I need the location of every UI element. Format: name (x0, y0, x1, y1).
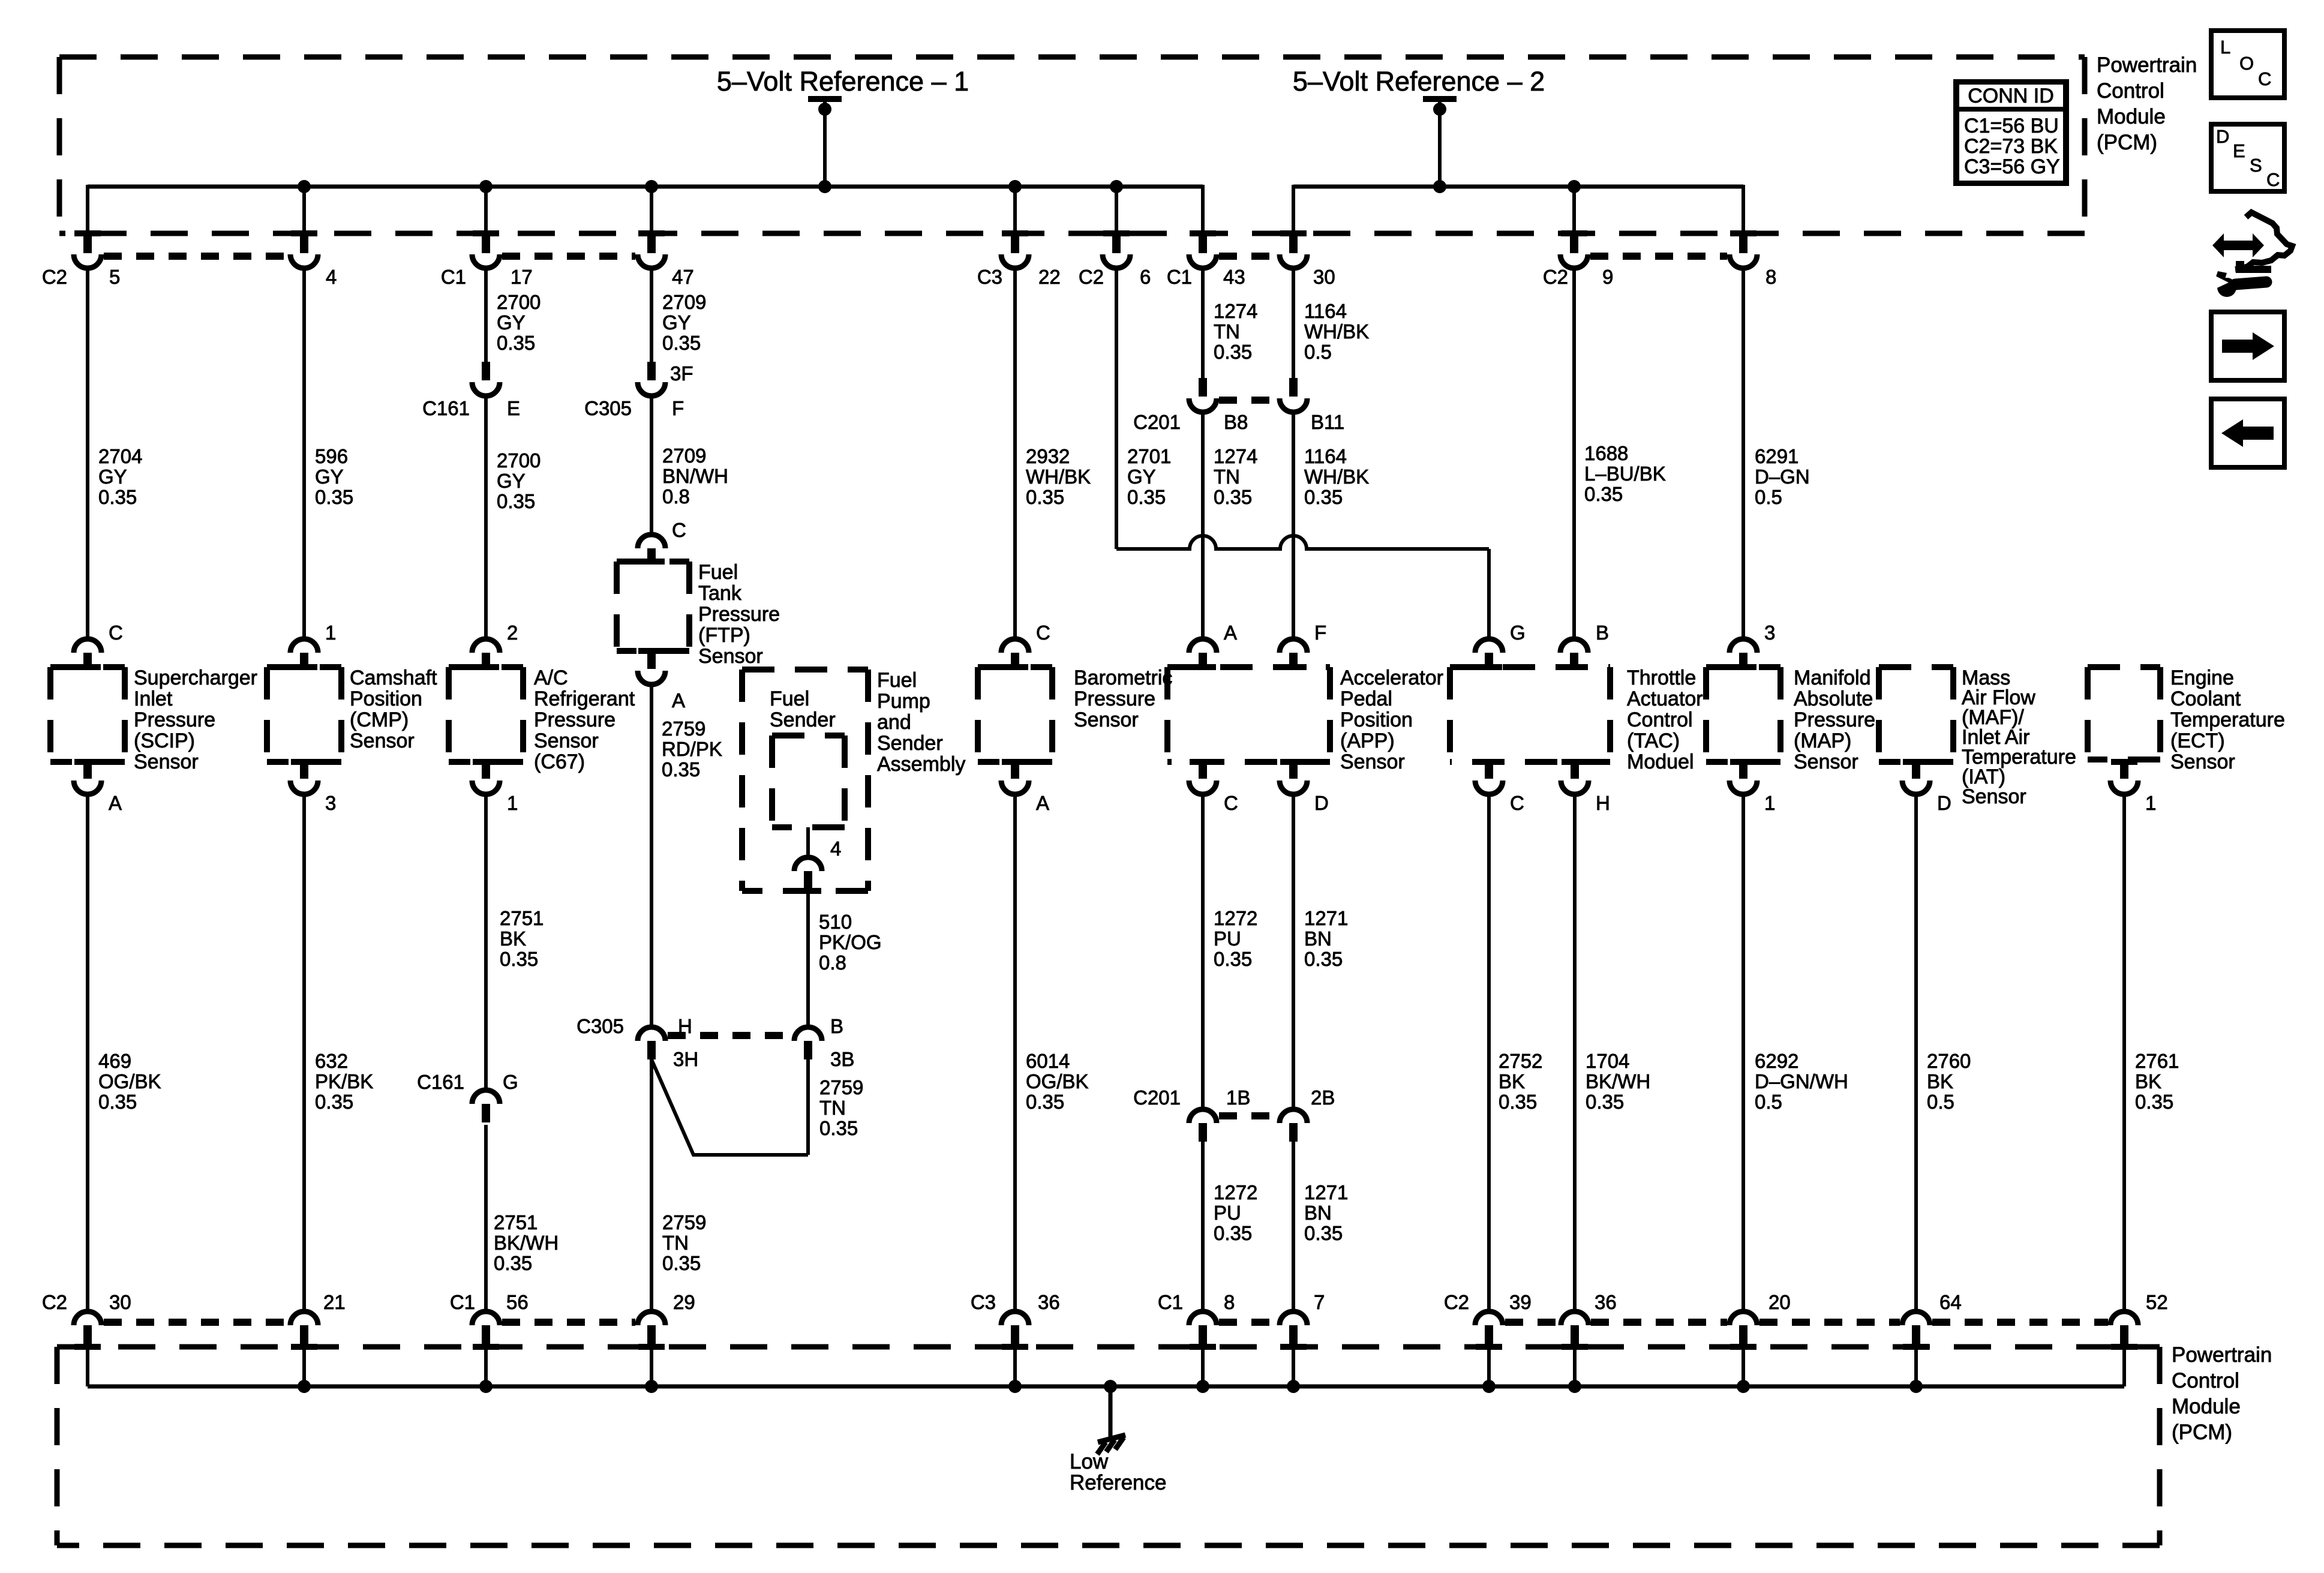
pin label 4 (326, 266, 337, 288)
svg-text:36: 36 (1038, 1291, 1060, 1313)
gang line C2 20-64 (1759, 1319, 1900, 1326)
svg-text:B: B (1596, 622, 1609, 644)
svg-text:1688: 1688 (1584, 442, 1628, 464)
bottom feeder wire x2482 (1487, 1347, 1491, 1386)
wire 2752 BK seg (1487, 792, 1491, 1311)
wire label 2752 BK (1499, 1050, 1542, 1113)
FTP Sensor label (698, 561, 780, 668)
pin label C1 43 (1167, 266, 1245, 288)
Supercharger Inlet Pressure (SCIP) Sensor box (50, 667, 125, 762)
Barometric Pressure Sensor label (1074, 667, 1172, 731)
svg-text:G: G (1510, 622, 1526, 644)
svg-text:17: 17 (511, 266, 533, 288)
bottom pin label 52 (2146, 1291, 2168, 1313)
FTP bottom connector pin A (638, 648, 665, 685)
wire label 6014 OG/BK (1026, 1050, 1089, 1113)
svg-text:(C67): (C67) (534, 751, 585, 773)
wire label 2759 TN (662, 1211, 706, 1274)
wire label 2709 BN/WH (662, 445, 728, 508)
pin label C2 9 (1543, 266, 1614, 288)
svg-text:2701: 2701 (1127, 445, 1171, 467)
svg-text:Pump: Pump (877, 690, 930, 713)
wire label 2751 BK/WH (494, 1211, 559, 1274)
svg-text:0.35: 0.35 (1026, 1091, 1064, 1113)
wire label 510 PK/OG (819, 911, 882, 974)
svg-text:Sensor: Sensor (534, 730, 599, 752)
svg-text:8: 8 (1765, 266, 1776, 288)
sensor top connector pin A x2005 (1189, 639, 1217, 670)
svg-text:C3=56 GY: C3=56 GY (1964, 155, 2060, 178)
svg-text:43: 43 (1223, 266, 1245, 288)
Fuel Tank Pressure (FTP) Sensor box (617, 562, 689, 651)
sensor bottom pin label D (1314, 792, 1329, 814)
svg-text:C: C (1036, 622, 1050, 644)
wire 1704 BK/WH seg (1573, 792, 1577, 1311)
svg-text:20: 20 (1768, 1291, 1791, 1313)
5-Volt Reference - 2 label (1293, 66, 1545, 97)
svg-text:PK/BK: PK/BK (315, 1070, 373, 1092)
svg-text:Sender: Sender (770, 709, 836, 731)
wire 2759 TN seg (650, 1059, 653, 1311)
svg-text:C201: C201 (1133, 411, 1181, 433)
ground symbol (1097, 1435, 1125, 1454)
wire 6014 OG/BK seg (1013, 792, 1017, 1311)
svg-text:1B: 1B (1226, 1086, 1250, 1109)
wire 6291 D-GN seg (1742, 267, 1745, 639)
svg-text:3: 3 (325, 792, 336, 814)
bus1 junction x1861 (1110, 180, 1123, 193)
PCM bottom connector pin 21 (x=507) (290, 1311, 318, 1350)
svg-text:1164: 1164 (1304, 300, 1347, 322)
sensor bottom pin label A (109, 792, 122, 814)
svg-text:Manifold: Manifold (1794, 667, 1871, 689)
bus1 junction x810 (479, 180, 493, 193)
PCM bottom connector pin 29 (x=1086) (638, 1311, 665, 1350)
pin label C1 17 (441, 266, 533, 288)
bottom feeder wire x1692 (1013, 1347, 1017, 1386)
svg-text:0.35: 0.35 (1304, 948, 1343, 970)
svg-text:0.35: 0.35 (1584, 483, 1623, 505)
PCM bottom connector pin 64 (x=3194) (1902, 1311, 1930, 1350)
PCM bottom connector pin 56 (x=810) (472, 1311, 500, 1350)
svg-text:Sensor: Sensor (350, 730, 415, 752)
bus1 corner wire right (1201, 185, 1205, 235)
svg-text:A: A (109, 792, 122, 814)
wire 2751 BK seg (484, 792, 488, 1090)
svg-text:D: D (2216, 126, 2229, 147)
svg-text:Inlet: Inlet (134, 688, 173, 710)
sensor top pin label C (1036, 622, 1050, 644)
svg-text:C1: C1 (1167, 266, 1192, 288)
gang line C1 8-7 (1219, 1319, 1277, 1326)
bottom feeder wire x810 (484, 1347, 488, 1386)
svg-text:39: 39 (1509, 1291, 1532, 1313)
svg-text:0.35: 0.35 (819, 1117, 858, 1139)
sensor bottom connector pin H x2625 (1561, 759, 1589, 794)
low ref bus junction x2625 (1568, 1380, 1581, 1393)
svg-text:30: 30 (109, 1291, 131, 1313)
svg-text:Absolute: Absolute (1794, 688, 1873, 710)
gang line C2 39-36 (1505, 1319, 1559, 1326)
wire 1272 PU upper seg (1201, 792, 1205, 1109)
svg-text:1272: 1272 (1214, 1181, 1257, 1203)
svg-text:0.35: 0.35 (662, 1252, 701, 1274)
svg-text:Powertrain: Powertrain (2097, 53, 2197, 77)
5V reference bus 2 wire (1293, 185, 1743, 189)
svg-text:PU: PU (1214, 927, 1241, 950)
Powertrain Control Module (PCM) top box (59, 57, 2085, 233)
svg-text:0.35: 0.35 (2135, 1091, 2173, 1113)
svg-text:and: and (877, 711, 911, 734)
svg-text:E: E (2233, 140, 2245, 161)
svg-text:H: H (1596, 792, 1610, 814)
connector C305 pin B (794, 1027, 822, 1059)
svg-text:C2: C2 (1444, 1291, 1469, 1313)
pin label C3 22 (977, 266, 1061, 288)
svg-text:C3: C3 (971, 1291, 996, 1313)
svg-text:(CMP): (CMP) (350, 709, 409, 731)
ground stub wire (1109, 1386, 1113, 1437)
wire 1272 PU lower seg (1201, 1142, 1205, 1311)
svg-text:L–BU/BK: L–BU/BK (1584, 463, 1666, 485)
sensor top pin label A (1224, 622, 1237, 644)
wire label 469 OG/BK (98, 1050, 161, 1113)
sensor bottom connector pin 1 x810 (472, 759, 500, 794)
svg-text:C305: C305 (584, 397, 632, 419)
wire label 2709 GY (662, 291, 706, 354)
svg-text:C: C (1510, 792, 1524, 814)
sensor top connector pin B x2624 (1560, 639, 1588, 670)
svg-text:Coolant: Coolant (2170, 688, 2241, 710)
bus1 feeder wire x507 (302, 187, 306, 235)
wire label 2704 GY (98, 445, 142, 508)
wire label 1164 WH/BK (1304, 445, 1369, 508)
wire label 2700 GY (497, 449, 541, 512)
svg-text:TN: TN (1214, 320, 1240, 343)
LOC icon box (2211, 31, 2284, 98)
wire 2759 TN pigtail seg (806, 1059, 810, 1155)
wire 2700 GY lower seg (484, 395, 488, 639)
C201 gang line 1B-2B (1219, 1112, 1277, 1119)
5-Volt Reference - 1 label (717, 66, 969, 97)
svg-text:Tank: Tank (698, 582, 742, 605)
svg-text:1164: 1164 (1304, 445, 1347, 467)
svg-text:2752: 2752 (1499, 1050, 1542, 1072)
svg-text:0.8: 0.8 (819, 951, 846, 974)
svg-text:0.35: 0.35 (98, 1091, 137, 1113)
pin label 8 (1765, 266, 1776, 288)
Fuel Pump and Sender Assembly label (877, 669, 965, 776)
bottom pin label 7 (1314, 1291, 1325, 1313)
wire label 2759 RD/PK (662, 718, 722, 781)
svg-text:Pressure: Pressure (1794, 709, 1875, 731)
PCM bottom connector pin 39 (x=2482) (1475, 1311, 1503, 1350)
sensor bottom pin label 1 (1764, 792, 1775, 814)
connector gang line C2 pins 5-4 (104, 253, 288, 260)
C201 gang line B8-B11 (1219, 397, 1277, 404)
svg-text:(TAC): (TAC) (1627, 730, 1680, 752)
svg-text:E: E (507, 397, 520, 419)
svg-text:Engine: Engine (2170, 667, 2234, 689)
left arrow icon box (2211, 399, 2284, 467)
svg-text:F: F (672, 397, 684, 419)
low reference bus wire (88, 1385, 2124, 1389)
PCM C top connector pin 6 (x=1861) (1103, 230, 1130, 268)
wire 2760 BK seg (1914, 792, 1918, 1311)
svg-text:A: A (672, 689, 685, 712)
svg-text:8: 8 (1224, 1291, 1235, 1313)
svg-text:C2=73 BK: C2=73 BK (1964, 135, 2058, 158)
bottom feeder wire x2625 (1573, 1347, 1577, 1386)
wire label 1272 PU (1214, 907, 1257, 970)
bus1 feeder wire x1086 (650, 187, 653, 235)
svg-text:4: 4 (326, 266, 337, 288)
svg-text:2700: 2700 (497, 291, 541, 313)
low ref bus junction x3194 (1909, 1380, 1923, 1393)
PCM C top connector pin 8 (x=2906) (1730, 230, 1757, 268)
Engine Coolant Temperature (ECT) Sensor box (2088, 667, 2160, 760)
wire 1271 BN lower seg (1292, 1142, 1295, 1311)
svg-text:0.5: 0.5 (1755, 1091, 1782, 1113)
svg-text:1: 1 (507, 792, 518, 814)
bottom feeder wire x3541 (2122, 1347, 2126, 1386)
sensor top connector pin 1 x507 (290, 639, 318, 670)
svg-text:Module: Module (2172, 1395, 2241, 1418)
svg-text:B8: B8 (1224, 411, 1248, 433)
svg-text:0.35: 0.35 (1026, 486, 1064, 508)
connector gang line C2 pins 9-8 (1590, 253, 1727, 260)
PCM C top connector pin 4 (x=507) (290, 230, 318, 268)
svg-text:2759: 2759 (662, 1211, 706, 1233)
svg-text:WH/BK: WH/BK (1304, 466, 1369, 488)
5-Volt Reference - 2 stub (1423, 96, 1457, 193)
wire label 6292 D–GN/WH (1755, 1050, 1848, 1113)
Accelerator Pedal Position (APP) Sensor label (1340, 667, 1443, 773)
svg-text:PK/OG: PK/OG (819, 931, 882, 953)
wire label 2759 TN (819, 1076, 863, 1139)
wire 1271 BN upper seg (1292, 792, 1295, 1109)
svg-text:BK/WH: BK/WH (1586, 1070, 1650, 1092)
svg-text:632: 632 (315, 1050, 348, 1072)
wire 1274 TN mid seg (1201, 411, 1205, 639)
DESC icon box (2211, 124, 2284, 191)
svg-text:C1: C1 (450, 1291, 475, 1313)
low ref bus junction x1851 (1104, 1380, 1117, 1393)
svg-text:0.35: 0.35 (662, 332, 701, 354)
wire 6292 D-GN/WH seg (1742, 792, 1745, 1311)
svg-text:GY: GY (662, 311, 691, 334)
PCM C top connector pin 9 (x=2624) (1560, 230, 1588, 268)
svg-text:3: 3 (1764, 622, 1775, 644)
wire 2701 GY vertical seg (1115, 267, 1118, 549)
svg-text:Low: Low (1070, 1450, 1109, 1473)
svg-text:A: A (1224, 622, 1237, 644)
PCM bottom connector pin 20 (x=2906) (1730, 1311, 1757, 1350)
svg-text:56: 56 (506, 1291, 529, 1313)
svg-text:0.8: 0.8 (662, 485, 690, 508)
svg-text:CONN ID: CONN ID (1968, 85, 2054, 107)
connector C161 pin G (472, 1090, 500, 1122)
bottom pin label C2 30 (42, 1291, 131, 1313)
svg-text:Camshaft: Camshaft (350, 667, 437, 689)
PCM top label (2097, 53, 2197, 154)
svg-text:WH/BK: WH/BK (1304, 320, 1369, 343)
Supercharger Inlet Pressure (SCIP) Sensor label (134, 667, 257, 773)
svg-text:Powertrain: Powertrain (2172, 1343, 2272, 1367)
svg-text:0.35: 0.35 (315, 486, 353, 508)
svg-text:0.35: 0.35 (1499, 1091, 1537, 1113)
connector C201 pin 1B (1189, 1109, 1217, 1142)
svg-text:G: G (503, 1071, 518, 1093)
bottom pin label C2 39 (1444, 1291, 1532, 1313)
svg-text:1272: 1272 (1214, 907, 1257, 929)
svg-text:Sensor: Sensor (1794, 751, 1858, 773)
PCM bottom connector pin 36 (x=2625) (1561, 1311, 1589, 1350)
low ref bus junction x1692 (1008, 1380, 1022, 1393)
svg-text:Barometric: Barometric (1074, 667, 1172, 689)
svg-text:9: 9 (1602, 266, 1613, 288)
svg-text:1274: 1274 (1214, 445, 1257, 467)
svg-text:GY: GY (315, 466, 344, 488)
svg-text:D–GN/WH: D–GN/WH (1755, 1070, 1848, 1092)
svg-text:PU: PU (1214, 1202, 1241, 1224)
wire 2709 BN/WH seg (650, 395, 653, 535)
svg-text:C2: C2 (1543, 266, 1568, 288)
CONN ID table (1953, 79, 2069, 186)
sensor bottom connector pin D x2156 (1280, 759, 1307, 794)
svg-text:C: C (109, 622, 123, 644)
svg-text:C1: C1 (441, 266, 466, 288)
svg-text:22: 22 (1038, 266, 1061, 288)
bottom feeder wire x146 (86, 1347, 89, 1386)
wire label 1271 BN (1304, 907, 1348, 970)
wire label 632 PK/BK (315, 1050, 373, 1113)
svg-text:0.5: 0.5 (1927, 1091, 1954, 1113)
svg-text:2760: 2760 (1927, 1050, 1971, 1072)
wire 2701 GY horizontal seg with crossovers (1116, 536, 1489, 639)
PCM C top connector pin 47 (x=1086) (638, 230, 665, 268)
svg-text:Module: Module (2097, 105, 2166, 128)
svg-text:D: D (1937, 792, 1951, 814)
right arrow icon box (2211, 312, 2284, 380)
wire 2759 TN diagonal join (651, 1059, 808, 1155)
svg-text:2759: 2759 (819, 1076, 863, 1098)
svg-text:OG/BK: OG/BK (98, 1070, 161, 1092)
bus1 junction x507 (298, 180, 311, 193)
svg-text:6291: 6291 (1755, 445, 1798, 467)
svg-text:Throttle: Throttle (1627, 667, 1696, 689)
Manifold Absolute Pressure (MAP) Sensor box (1706, 667, 1780, 762)
wire label 6291 D–GN (1755, 445, 1810, 508)
Mass Air Flow (MAF)/Inlet Air Temperature (IAT) Sensor label (1962, 667, 2076, 808)
wire 596 GY seg (302, 267, 306, 639)
svg-text:A: A (1036, 792, 1049, 814)
Fuel Sender box (772, 736, 845, 827)
PCM C top connector pin 22 (x=1692) (1001, 230, 1029, 268)
svg-text:Sensor: Sensor (1340, 751, 1405, 773)
sensor top pin label 3 (1764, 622, 1775, 644)
Fuel Sender connector pin 4 (794, 857, 822, 894)
bottom feeder wire x2005 (1201, 1347, 1205, 1386)
bottom feeder wire x2156 (1292, 1347, 1295, 1386)
wire 1274 TN upper seg (1201, 267, 1205, 378)
svg-text:Fuel: Fuel (698, 561, 738, 584)
svg-text:6014: 6014 (1026, 1050, 1070, 1072)
pin label C2 6 (1079, 266, 1151, 288)
wire label 2751 BK (500, 907, 544, 970)
Throttle Actuator Control (TAC) Module box (1450, 667, 1610, 762)
svg-text:Sensor: Sensor (2170, 751, 2235, 773)
bus1 junction x1692 (1008, 180, 1022, 193)
PCM bottom connector pin 36 (x=1692) (1001, 1311, 1029, 1350)
svg-text:H: H (678, 1015, 692, 1037)
svg-text:Control: Control (2097, 79, 2164, 103)
bus1 feeder wire x1692 (1013, 187, 1017, 235)
svg-text:0.5: 0.5 (1304, 341, 1332, 363)
svg-text:Sensor: Sensor (1962, 785, 2026, 808)
svg-text:A/C: A/C (534, 667, 568, 689)
connector C201 pin B8 (1189, 378, 1217, 412)
svg-text:1: 1 (1764, 792, 1775, 814)
svg-text:C: C (1224, 792, 1238, 814)
Fuel Pump and Sender Assembly box (742, 670, 868, 891)
low ref bus junction x1086 (645, 1380, 658, 1393)
svg-text:Sensor: Sensor (698, 645, 763, 668)
sensor bottom pin label 3 (325, 792, 336, 814)
svg-text:D–GN: D–GN (1755, 466, 1810, 488)
sensor top connector pin 2 x810 (472, 639, 500, 670)
svg-text:6: 6 (1140, 266, 1151, 288)
svg-text:3H: 3H (673, 1048, 698, 1070)
wire 469 OG/BK seg (86, 792, 89, 1311)
sensor bottom connector pin C x2482 (1475, 759, 1503, 794)
svg-text:5–Volt Reference – 2: 5–Volt Reference – 2 (1293, 66, 1545, 97)
svg-text:Position: Position (1340, 709, 1413, 731)
svg-text:Sender: Sender (877, 732, 943, 755)
svg-text:0.35: 0.35 (1127, 486, 1166, 508)
svg-text:Pressure: Pressure (134, 709, 215, 731)
Barometric Pressure Sensor box (978, 667, 1052, 762)
svg-text:21: 21 (323, 1291, 346, 1313)
sensor bottom pin label C (1510, 792, 1524, 814)
connector gang line C1 pins 17-47 (502, 253, 635, 260)
svg-text:C161: C161 (422, 397, 470, 419)
bottom pin label 29 (673, 1291, 695, 1313)
A/C Refrigerant Pressure Sensor label (534, 667, 635, 773)
bus1 junction x1375 (818, 180, 831, 193)
sensor bottom pin label D (1937, 792, 1951, 814)
svg-text:Position: Position (350, 688, 422, 710)
svg-text:TN: TN (1214, 466, 1240, 488)
svg-text:2: 2 (507, 622, 518, 644)
svg-text:S: S (2250, 155, 2262, 176)
svg-text:0.35: 0.35 (1214, 341, 1252, 363)
wire 2759 RD/PK seg (650, 683, 653, 1027)
svg-text:BN/WH: BN/WH (662, 465, 728, 487)
wire 2700 GY upper seg (484, 267, 488, 362)
svg-text:C: C (672, 519, 686, 541)
svg-text:C1=56 BU: C1=56 BU (1964, 115, 2059, 137)
sensor top connector pin 3 x2906 (1730, 639, 1757, 670)
svg-text:Refrigerant: Refrigerant (534, 688, 635, 710)
svg-text:(ECT): (ECT) (2170, 730, 2225, 752)
svg-text:C201: C201 (1133, 1086, 1181, 1109)
sensor top connector pin G x2482 (1475, 639, 1503, 670)
svg-text:2751: 2751 (500, 907, 544, 929)
svg-text:O: O (2239, 53, 2254, 74)
PCM bottom connector pin 52 (x=3541) (2110, 1311, 2138, 1350)
svg-text:6292: 6292 (1755, 1050, 1798, 1072)
